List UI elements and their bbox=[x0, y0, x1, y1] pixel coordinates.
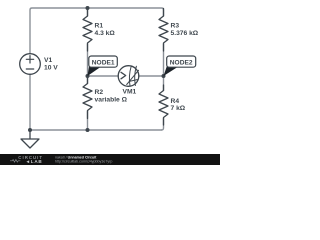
svg-text:◄LAB: ◄LAB bbox=[26, 159, 43, 164]
resistor R4 bbox=[159, 85, 168, 125]
svg-text:V1: V1 bbox=[44, 57, 52, 64]
wire R2 bottom lead bbox=[87, 76, 89, 130]
node NODE2 pointer bbox=[164, 66, 179, 76]
junction dot R2 bottom bbox=[86, 128, 90, 132]
svg-text:7 kΩ: 7 kΩ bbox=[171, 105, 186, 112]
svg-text:R4: R4 bbox=[171, 98, 180, 105]
node NODE2 box bbox=[167, 56, 196, 67]
svg-text:R3: R3 bbox=[171, 23, 180, 30]
svg-text:10 V: 10 V bbox=[44, 65, 58, 72]
wire middle branch R1 to NODE1 bbox=[87, 8, 89, 76]
svg-text:NODE2: NODE2 bbox=[170, 59, 193, 66]
junction dot NODE1 bbox=[86, 74, 90, 78]
svg-text:R1: R1 bbox=[95, 23, 104, 30]
resistor R2 bbox=[83, 77, 92, 119]
svg-text:R2: R2 bbox=[95, 89, 104, 96]
wire left bottom bbox=[29, 74, 31, 130]
voltmeter VM1 bbox=[118, 66, 139, 87]
wire bottom bbox=[30, 129, 162, 131]
voltage source V1 bbox=[20, 54, 41, 75]
svg-text:variable Ω: variable Ω bbox=[95, 97, 128, 104]
svg-text:http://circuitlab.com/c/4ypbby: http://circuitlab.com/c/4ypbby3e7yrp bbox=[55, 160, 112, 164]
footer bar bbox=[0, 154, 220, 165]
wire right branch bbox=[162, 44, 164, 130]
footer text bbox=[55, 155, 112, 163]
footer logo CIRCUIT LAB bbox=[10, 155, 43, 164]
wire top bbox=[30, 8, 164, 54]
svg-text:VM1: VM1 bbox=[123, 88, 137, 95]
resistor R1 bbox=[83, 9, 92, 52]
junction dot top R1 bbox=[86, 6, 90, 10]
junction dot ground bbox=[28, 128, 32, 132]
node NODE1 box bbox=[89, 56, 118, 67]
svg-text:4.3 kΩ: 4.3 kΩ bbox=[95, 30, 116, 37]
ground bbox=[21, 130, 39, 148]
wire NODE1 to VM1 bbox=[88, 75, 119, 77]
resistor R3 bbox=[159, 9, 168, 52]
svg-text:NODE1: NODE1 bbox=[92, 59, 115, 66]
svg-text:5.376 kΩ: 5.376 kΩ bbox=[171, 30, 199, 37]
junction dot NODE2 bbox=[162, 74, 166, 78]
node NODE1 pointer bbox=[88, 66, 101, 76]
wire VM1 to NODE2 bbox=[139, 75, 164, 77]
